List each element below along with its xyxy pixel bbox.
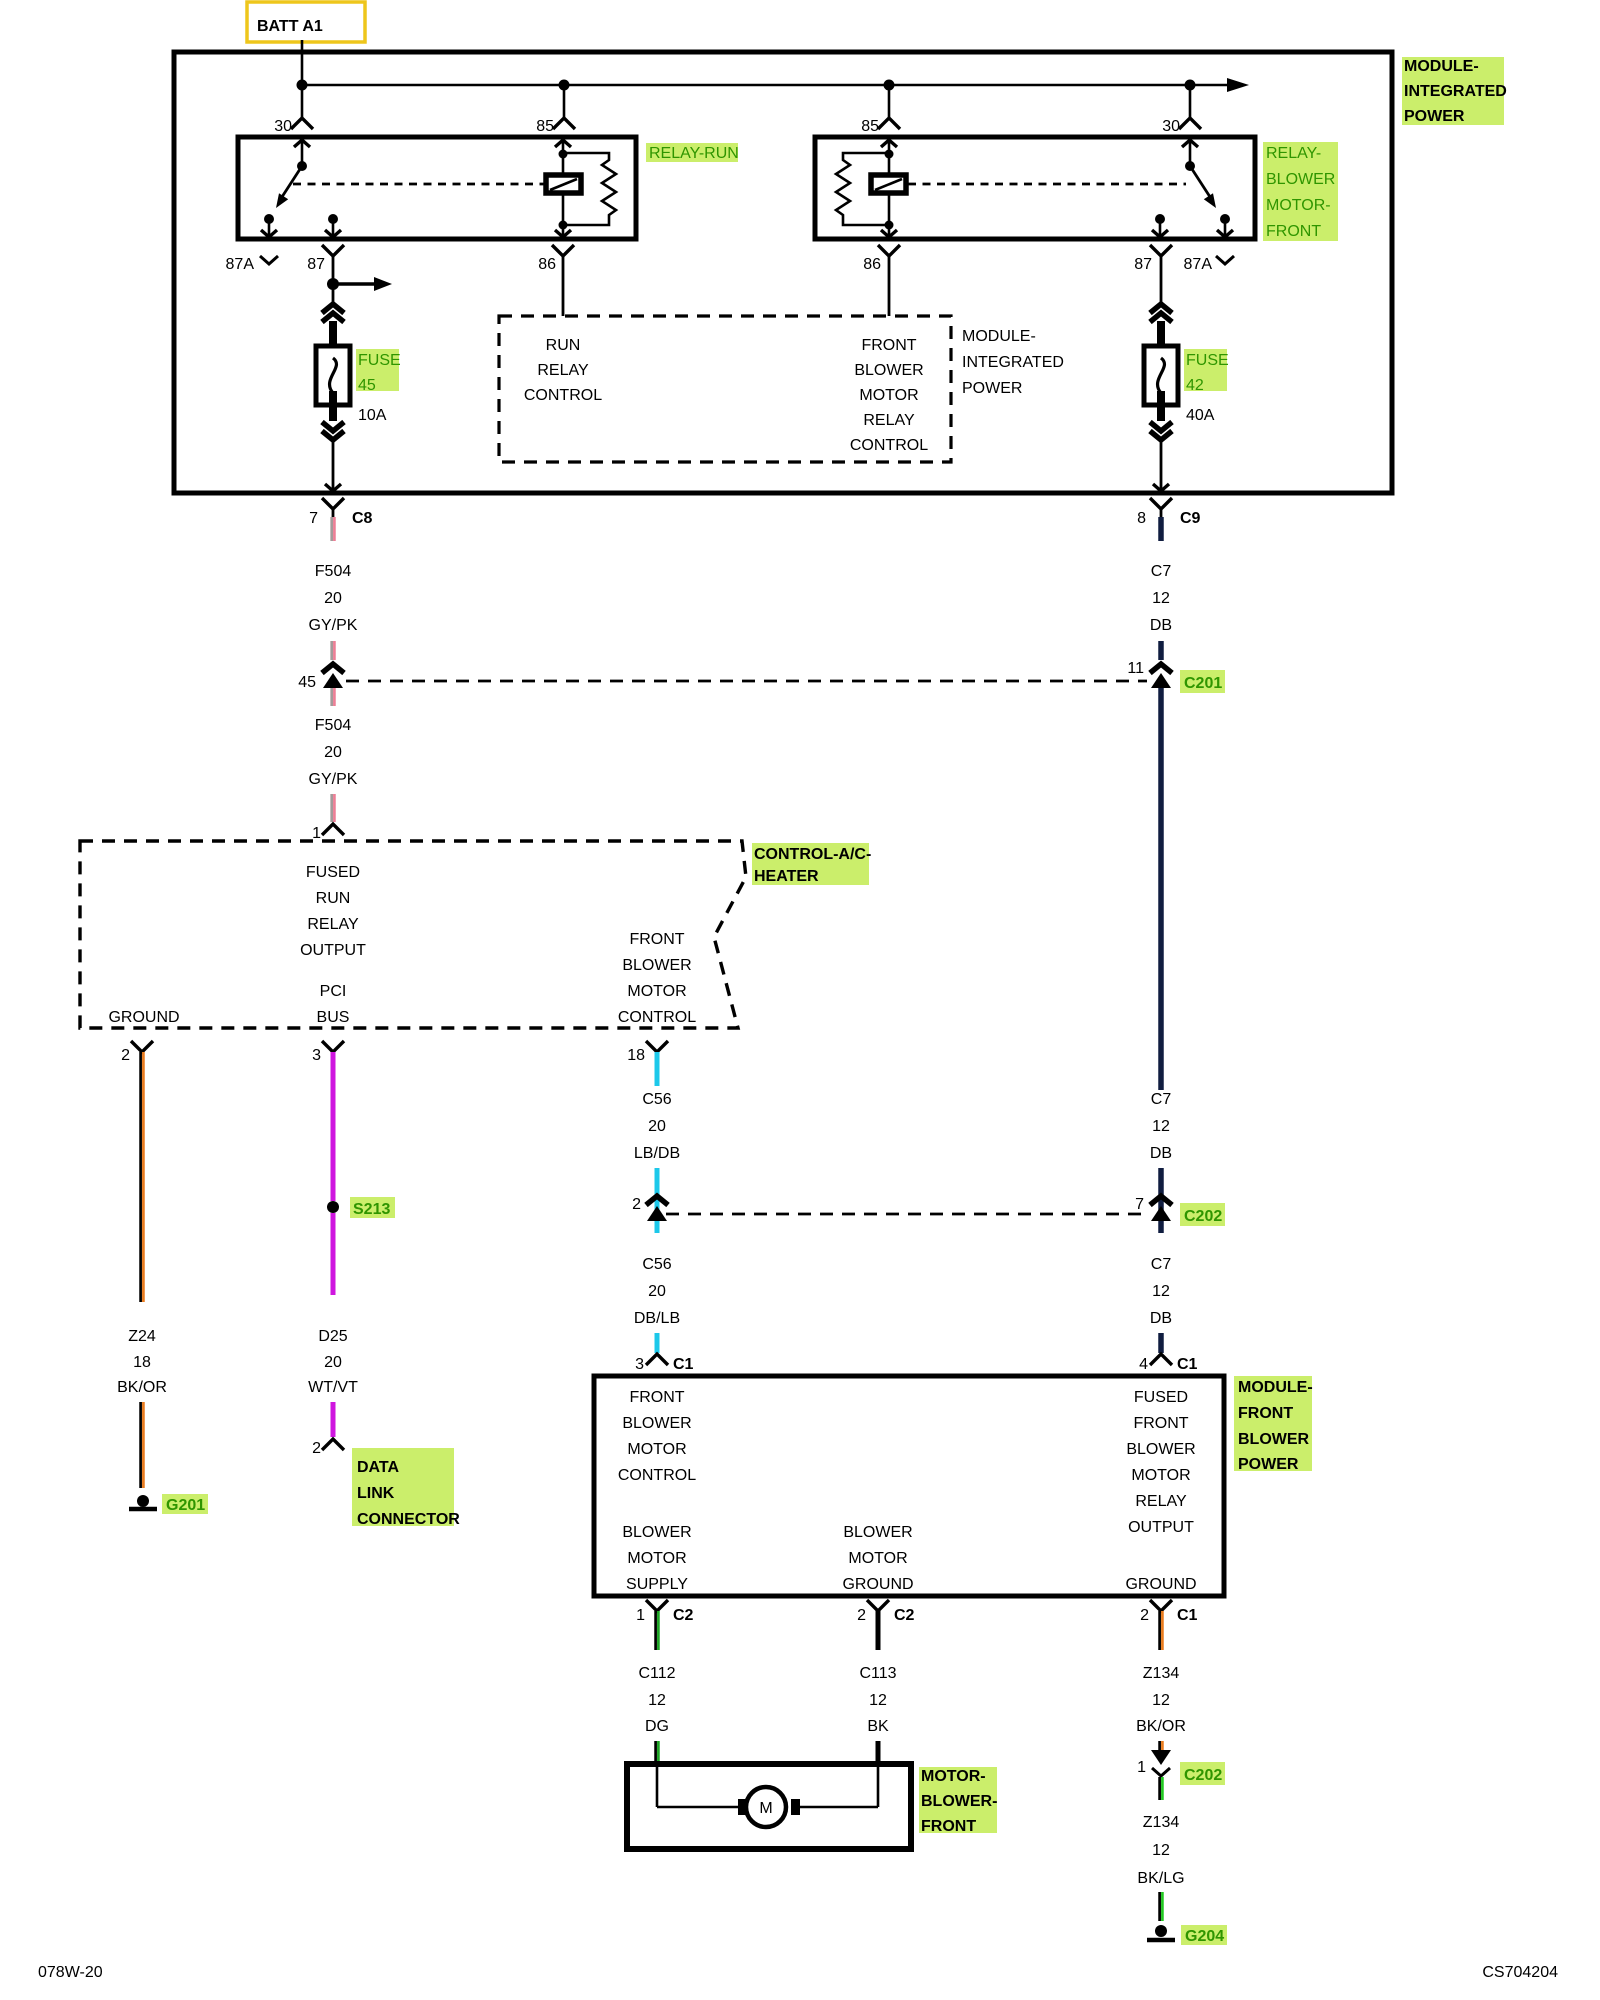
- svg-text:RELAY: RELAY: [863, 412, 915, 429]
- svg-text:RELAY: RELAY: [1135, 1493, 1187, 1510]
- svg-text:G204: G204: [1185, 1928, 1224, 1945]
- svg-text:1: 1: [636, 1607, 645, 1624]
- svg-text:GROUND: GROUND: [1125, 1576, 1196, 1593]
- svg-text:MODULE-: MODULE-: [1404, 58, 1479, 75]
- svg-text:FRONT: FRONT: [1266, 223, 1321, 240]
- svg-text:2: 2: [1140, 1607, 1149, 1624]
- svg-text:078W-20: 078W-20: [38, 1964, 103, 1981]
- svg-text:FRONT: FRONT: [921, 1818, 976, 1835]
- svg-text:FRONT: FRONT: [1238, 1405, 1293, 1422]
- svg-text:10A: 10A: [358, 407, 387, 424]
- svg-text:85: 85: [861, 118, 879, 135]
- svg-text:BLOWER: BLOWER: [622, 1524, 691, 1541]
- svg-text:OUTPUT: OUTPUT: [1128, 1519, 1194, 1536]
- svg-text:CS704204: CS704204: [1482, 1964, 1558, 1981]
- svg-text:MODULE-: MODULE-: [1238, 1379, 1313, 1396]
- svg-text:86: 86: [863, 256, 881, 273]
- svg-text:CONTROL-A/C-: CONTROL-A/C-: [754, 846, 871, 863]
- svg-text:Z134: Z134: [1143, 1814, 1180, 1831]
- svg-text:M: M: [759, 1800, 772, 1817]
- svg-text:FRONT: FRONT: [861, 337, 916, 354]
- svg-text:BK: BK: [867, 1718, 889, 1735]
- svg-text:C112: C112: [638, 1665, 675, 1682]
- svg-text:12: 12: [1152, 590, 1170, 607]
- svg-text:POWER: POWER: [962, 380, 1022, 397]
- svg-text:45: 45: [358, 377, 376, 394]
- svg-text:C7: C7: [1151, 1256, 1172, 1273]
- svg-text:GROUND: GROUND: [108, 1009, 179, 1026]
- svg-text:87: 87: [307, 256, 325, 273]
- svg-text:C201: C201: [1184, 675, 1222, 692]
- svg-text:87A: 87A: [1184, 256, 1213, 273]
- svg-text:POWER: POWER: [1404, 108, 1465, 125]
- svg-text:BLOWER: BLOWER: [1126, 1441, 1195, 1458]
- svg-text:F504: F504: [315, 717, 352, 734]
- svg-text:MOTOR: MOTOR: [627, 983, 686, 1000]
- svg-text:45: 45: [298, 674, 316, 691]
- svg-text:Z24: Z24: [128, 1328, 156, 1345]
- svg-text:12: 12: [1152, 1692, 1170, 1709]
- svg-text:MOTOR: MOTOR: [1131, 1467, 1190, 1484]
- svg-text:RELAY-: RELAY-: [1266, 145, 1321, 162]
- svg-text:LINK: LINK: [357, 1485, 395, 1502]
- svg-text:DB: DB: [1150, 617, 1172, 634]
- svg-text:1: 1: [312, 825, 321, 842]
- svg-text:C9: C9: [1180, 510, 1201, 527]
- svg-text:BLOWER: BLOWER: [854, 362, 923, 379]
- svg-text:30: 30: [274, 118, 292, 135]
- svg-text:RUN: RUN: [316, 890, 351, 907]
- svg-text:20: 20: [324, 744, 342, 761]
- svg-text:RELAY: RELAY: [537, 362, 589, 379]
- svg-text:12: 12: [1152, 1118, 1170, 1135]
- svg-text:FRONT: FRONT: [629, 1389, 684, 1406]
- svg-text:MOTOR: MOTOR: [627, 1550, 686, 1567]
- svg-text:C113: C113: [859, 1665, 896, 1682]
- svg-text:LB/DB: LB/DB: [634, 1145, 680, 1162]
- svg-text:BLOWER: BLOWER: [1238, 1431, 1310, 1448]
- svg-text:RELAY-RUN: RELAY-RUN: [649, 145, 739, 162]
- svg-text:CONTROL: CONTROL: [850, 437, 928, 454]
- svg-text:F504: F504: [315, 563, 352, 580]
- svg-text:CONTROL: CONTROL: [524, 387, 602, 404]
- svg-text:MOTOR-: MOTOR-: [1266, 197, 1331, 214]
- svg-text:8: 8: [1137, 510, 1146, 527]
- svg-text:FUSE: FUSE: [1186, 352, 1229, 369]
- svg-text:SUPPLY: SUPPLY: [626, 1576, 688, 1593]
- svg-text:DB: DB: [1150, 1145, 1172, 1162]
- svg-text:RELAY: RELAY: [307, 916, 359, 933]
- svg-text:POWER: POWER: [1238, 1456, 1299, 1473]
- svg-text:C1: C1: [1177, 1356, 1198, 1373]
- svg-text:MOTOR: MOTOR: [848, 1550, 907, 1567]
- svg-text:CONNECTOR: CONNECTOR: [357, 1511, 460, 1528]
- svg-text:DB/LB: DB/LB: [634, 1310, 680, 1327]
- svg-text:BLOWER: BLOWER: [622, 957, 691, 974]
- svg-text:87: 87: [1134, 256, 1152, 273]
- svg-text:DG: DG: [645, 1718, 669, 1735]
- svg-text:3: 3: [635, 1356, 644, 1373]
- svg-text:C2: C2: [673, 1607, 694, 1624]
- svg-text:RUN: RUN: [546, 337, 581, 354]
- svg-text:BLOWER: BLOWER: [622, 1415, 691, 1432]
- svg-text:C1: C1: [1177, 1607, 1198, 1624]
- svg-text:20: 20: [648, 1118, 666, 1135]
- svg-text:BK/OR: BK/OR: [117, 1379, 167, 1396]
- svg-text:DB: DB: [1150, 1310, 1172, 1327]
- svg-text:40A: 40A: [1186, 407, 1215, 424]
- svg-text:18: 18: [627, 1047, 645, 1064]
- svg-text:20: 20: [324, 590, 342, 607]
- svg-text:7: 7: [1135, 1196, 1144, 1213]
- svg-text:7: 7: [309, 510, 318, 527]
- svg-text:C8: C8: [352, 510, 373, 527]
- svg-text:87A: 87A: [226, 256, 255, 273]
- svg-text:WT/VT: WT/VT: [308, 1379, 358, 1396]
- svg-text:PCI: PCI: [320, 983, 347, 1000]
- svg-text:11: 11: [1127, 660, 1144, 677]
- svg-text:12: 12: [1152, 1842, 1170, 1859]
- svg-text:MOTOR: MOTOR: [627, 1441, 686, 1458]
- svg-text:FUSE: FUSE: [358, 352, 401, 369]
- svg-text:C202: C202: [1184, 1208, 1222, 1225]
- svg-text:BATT A1: BATT A1: [257, 18, 323, 35]
- svg-text:MODULE-: MODULE-: [962, 328, 1036, 345]
- svg-text:GY/PK: GY/PK: [309, 617, 358, 634]
- svg-text:FUSED: FUSED: [306, 864, 360, 881]
- svg-text:1: 1: [1137, 1759, 1146, 1776]
- svg-text:OUTPUT: OUTPUT: [300, 942, 366, 959]
- svg-text:INTEGRATED: INTEGRATED: [1404, 83, 1507, 100]
- svg-text:C202: C202: [1184, 1767, 1222, 1784]
- svg-text:2: 2: [857, 1607, 866, 1624]
- svg-text:FUSED: FUSED: [1134, 1389, 1188, 1406]
- svg-text:4: 4: [1139, 1356, 1148, 1373]
- svg-text:MOTOR: MOTOR: [859, 387, 918, 404]
- svg-text:2: 2: [312, 1440, 321, 1457]
- svg-text:86: 86: [538, 256, 556, 273]
- svg-text:GROUND: GROUND: [842, 1576, 913, 1593]
- svg-text:BLOWER: BLOWER: [1266, 171, 1335, 188]
- svg-text:C56: C56: [642, 1256, 671, 1273]
- svg-text:12: 12: [648, 1692, 666, 1709]
- svg-text:BLOWER: BLOWER: [843, 1524, 912, 1541]
- svg-text:30: 30: [1162, 118, 1180, 135]
- svg-text:C1: C1: [673, 1356, 694, 1373]
- svg-text:42: 42: [1186, 377, 1204, 394]
- svg-text:18: 18: [133, 1354, 151, 1371]
- svg-text:20: 20: [648, 1283, 666, 1300]
- svg-text:BUS: BUS: [317, 1009, 350, 1026]
- svg-text:12: 12: [869, 1692, 887, 1709]
- svg-text:C2: C2: [894, 1607, 915, 1624]
- svg-text:2: 2: [632, 1196, 641, 1213]
- svg-text:G201: G201: [166, 1497, 205, 1514]
- svg-text:BK/LG: BK/LG: [1137, 1870, 1184, 1887]
- svg-text:20: 20: [324, 1354, 342, 1371]
- svg-text:C7: C7: [1151, 1091, 1172, 1108]
- svg-text:BK/OR: BK/OR: [1136, 1718, 1186, 1735]
- svg-text:HEATER: HEATER: [754, 868, 819, 885]
- svg-text:INTEGRATED: INTEGRATED: [962, 354, 1064, 371]
- svg-text:GY/PK: GY/PK: [309, 771, 358, 788]
- svg-text:FRONT: FRONT: [1133, 1415, 1188, 1432]
- svg-text:85: 85: [536, 118, 554, 135]
- svg-text:FRONT: FRONT: [629, 931, 684, 948]
- svg-text:S213: S213: [353, 1201, 390, 1218]
- svg-text:Z134: Z134: [1143, 1665, 1180, 1682]
- svg-text:C7: C7: [1151, 563, 1172, 580]
- svg-text:MOTOR-: MOTOR-: [921, 1768, 986, 1785]
- svg-text:2: 2: [121, 1047, 130, 1064]
- svg-text:CONTROL: CONTROL: [618, 1009, 696, 1026]
- svg-text:C56: C56: [642, 1091, 671, 1108]
- svg-text:BLOWER-: BLOWER-: [921, 1793, 997, 1810]
- svg-text:12: 12: [1152, 1283, 1170, 1300]
- svg-text:DATA: DATA: [357, 1459, 400, 1476]
- svg-text:D25: D25: [318, 1328, 347, 1345]
- svg-text:3: 3: [312, 1047, 321, 1064]
- svg-text:CONTROL: CONTROL: [618, 1467, 696, 1484]
